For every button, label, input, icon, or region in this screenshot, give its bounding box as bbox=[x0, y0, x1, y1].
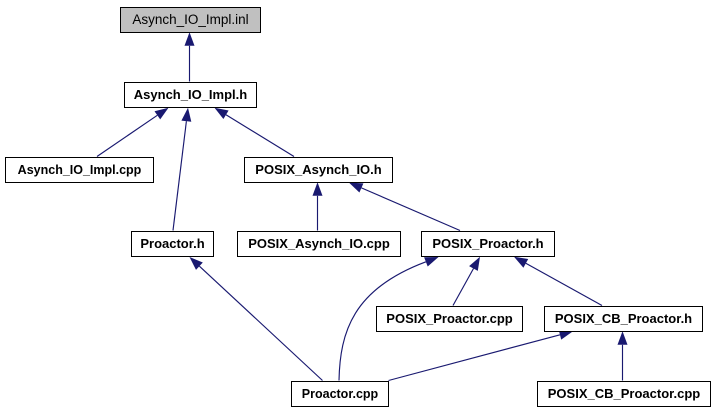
node Asynch_IO_Impl.cpp bbox=[6, 158, 154, 183]
node POSIX_Proactor.h bbox=[422, 232, 555, 257]
edge POSIX_CB_Proactor.h -> POSIX_Proactor.h bbox=[514, 257, 602, 306]
node POSIX_Asynch_IO.h bbox=[245, 158, 393, 183]
svg-text:POSIX_Asynch_IO.cpp: POSIX_Asynch_IO.cpp bbox=[248, 236, 390, 251]
svg-text:Asynch_IO_Impl.cpp: Asynch_IO_Impl.cpp bbox=[18, 163, 142, 177]
node POSIX_Proactor.cpp bbox=[377, 307, 523, 332]
svg-text:Proactor.cpp: Proactor.cpp bbox=[302, 387, 379, 401]
svg-text:Asynch_IO_Impl.inl: Asynch_IO_Impl.inl bbox=[132, 12, 248, 27]
node Asynch_IO_Impl.h bbox=[125, 83, 257, 108]
svg-text:Proactor.h: Proactor.h bbox=[140, 236, 204, 251]
node POSIX_CB_Proactor.cpp bbox=[538, 382, 711, 407]
svg-text:POSIX_Proactor.h: POSIX_Proactor.h bbox=[432, 236, 543, 251]
svg-text:Asynch_IO_Impl.h: Asynch_IO_Impl.h bbox=[134, 87, 247, 102]
node Proactor.h bbox=[132, 232, 214, 257]
edge POSIX_CB_Proactor.cpp -> POSIX_CB_Proactor.h bbox=[618, 331, 628, 380]
node Proactor.cpp bbox=[292, 382, 389, 407]
node Asynch_IO_Impl.inl bbox=[121, 8, 261, 33]
svg-text:POSIX_Proactor.cpp: POSIX_Proactor.cpp bbox=[386, 311, 512, 326]
svg-text:POSIX_CB_Proactor.cpp: POSIX_CB_Proactor.cpp bbox=[548, 386, 700, 401]
edge Asynch_IO_Impl.cpp -> Asynch_IO_Impl.h bbox=[97, 108, 169, 157]
node POSIX_CB_Proactor.h bbox=[545, 307, 703, 332]
edge Proactor.cpp -> POSIX_Proactor.h (curved) bbox=[339, 257, 439, 381]
node POSIX_Asynch_IO.cpp bbox=[238, 232, 401, 257]
edge POSIX_Asynch_IO.cpp -> POSIX_Asynch_IO.h bbox=[313, 182, 323, 230]
edge Proactor.h -> Asynch_IO_Impl.h bbox=[173, 108, 191, 231]
edge POSIX_Proactor.h -> POSIX_Asynch_IO.h bbox=[349, 183, 460, 231]
edge POSIX_Proactor.cpp -> POSIX_Proactor.h bbox=[453, 257, 480, 306]
edge Asynch_IO_Impl.h -> Asynch_IO_Impl.inl bbox=[185, 32, 195, 81]
edge Proactor.cpp -> Proactor.h bbox=[190, 257, 323, 381]
edge POSIX_Asynch_IO.h -> Asynch_IO_Impl.h bbox=[215, 108, 295, 157]
edge Proactor.cpp -> POSIX_CB_Proactor.h bbox=[389, 330, 574, 381]
svg-text:POSIX_CB_Proactor.h: POSIX_CB_Proactor.h bbox=[555, 311, 692, 326]
svg-text:POSIX_Asynch_IO.h: POSIX_Asynch_IO.h bbox=[255, 162, 381, 177]
